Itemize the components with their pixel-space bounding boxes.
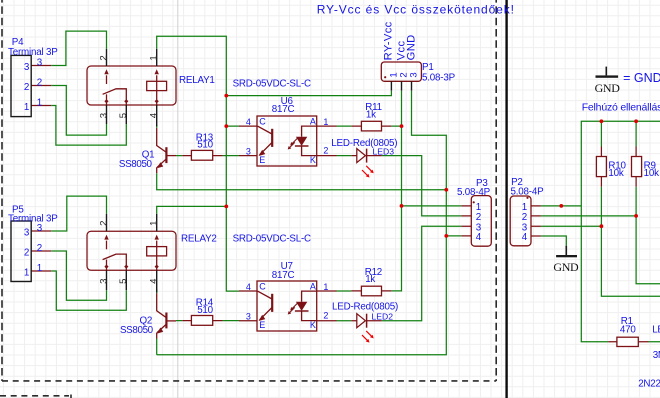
svg-text:Terminal 3P: Terminal 3P [8, 47, 58, 58]
svg-text:K: K [310, 155, 316, 165]
svg-text:SRD-05VDC-SL-C: SRD-05VDC-SL-C [233, 78, 311, 89]
svg-text:3: 3 [98, 279, 109, 284]
svg-text:Felhúzó ellenállások: Felhúzó ellenállások [582, 101, 660, 113]
svg-text:1k: 1k [366, 110, 376, 121]
svg-text:4: 4 [246, 282, 251, 292]
svg-text:SRD-05VDC-SL-C: SRD-05VDC-SL-C [233, 234, 311, 245]
svg-text:E: E [259, 155, 265, 165]
svg-text:C: C [259, 281, 266, 291]
svg-text:2: 2 [37, 77, 42, 88]
svg-text:2: 2 [98, 221, 109, 226]
svg-text:1k: 1k [365, 274, 375, 285]
svg-text:470: 470 [620, 325, 636, 336]
svg-text:5: 5 [118, 113, 129, 118]
svg-text:1: 1 [149, 55, 160, 60]
svg-text:3: 3 [24, 227, 30, 238]
svg-text:SS8050: SS8050 [119, 159, 153, 170]
svg-text:A: A [310, 281, 316, 291]
svg-text:2: 2 [24, 82, 29, 93]
svg-text:510: 510 [197, 140, 213, 151]
svg-text:817C: 817C [272, 270, 295, 281]
svg-text:RELAY1: RELAY1 [179, 75, 215, 86]
svg-text:2: 2 [24, 247, 29, 258]
svg-text:RY-Vcc: RY-Vcc [383, 21, 395, 60]
svg-text:Terminal 3P: Terminal 3P [8, 214, 58, 225]
svg-text:GND: GND [553, 260, 579, 274]
svg-text:2: 2 [323, 145, 328, 155]
svg-text:5.08-4P: 5.08-4P [511, 186, 545, 197]
svg-text:2: 2 [37, 243, 42, 254]
svg-text:2N2222: 2N2222 [638, 378, 660, 389]
svg-text:LED2: LED2 [372, 312, 394, 322]
svg-text:3: 3 [246, 311, 251, 321]
svg-text:817C: 817C [272, 104, 295, 115]
svg-text:4: 4 [246, 117, 251, 127]
svg-text:GND: GND [595, 81, 621, 95]
svg-text:4: 4 [149, 278, 160, 284]
svg-text:2: 2 [323, 310, 328, 320]
svg-text:3: 3 [37, 57, 43, 68]
svg-text:1: 1 [37, 263, 42, 274]
svg-text:SS8050: SS8050 [120, 325, 154, 336]
svg-text:1: 1 [323, 282, 328, 292]
svg-text:= GND: = GND [623, 71, 660, 85]
svg-text:510: 510 [197, 305, 213, 316]
svg-text:K: K [310, 320, 316, 330]
svg-text:1: 1 [149, 221, 160, 226]
svg-text:1: 1 [24, 102, 29, 113]
svg-text:3MM: 3MM [653, 350, 660, 361]
svg-text:GND: GND [405, 34, 417, 60]
svg-text:3: 3 [98, 113, 109, 118]
svg-text:2: 2 [98, 55, 109, 60]
svg-text:5.08-4P: 5.08-4P [457, 187, 491, 198]
svg-text:RELAY2: RELAY2 [181, 233, 217, 244]
svg-text:3: 3 [409, 72, 420, 77]
svg-text:E: E [259, 320, 265, 330]
svg-text:10k: 10k [608, 168, 623, 179]
svg-text:RY-Vcc és Vcc összekötendőek!: RY-Vcc és Vcc összekötendőek! [317, 3, 515, 17]
svg-text:5.08-3P: 5.08-3P [422, 72, 456, 83]
svg-text:10k: 10k [644, 168, 659, 179]
svg-text:4: 4 [522, 232, 528, 243]
svg-text:4: 4 [149, 112, 160, 118]
svg-text:1: 1 [37, 97, 42, 108]
svg-text:1: 1 [323, 117, 328, 127]
svg-text:5: 5 [118, 279, 129, 284]
svg-text:3: 3 [246, 146, 251, 156]
svg-text:3: 3 [24, 62, 30, 73]
svg-text:A: A [310, 116, 316, 126]
svg-text:C: C [259, 116, 266, 126]
svg-text:LED-G: LED-G [652, 325, 660, 336]
svg-text:4: 4 [476, 232, 482, 243]
svg-text:1: 1 [24, 267, 29, 278]
svg-text:3: 3 [37, 223, 43, 234]
svg-text:LED3: LED3 [373, 146, 395, 156]
